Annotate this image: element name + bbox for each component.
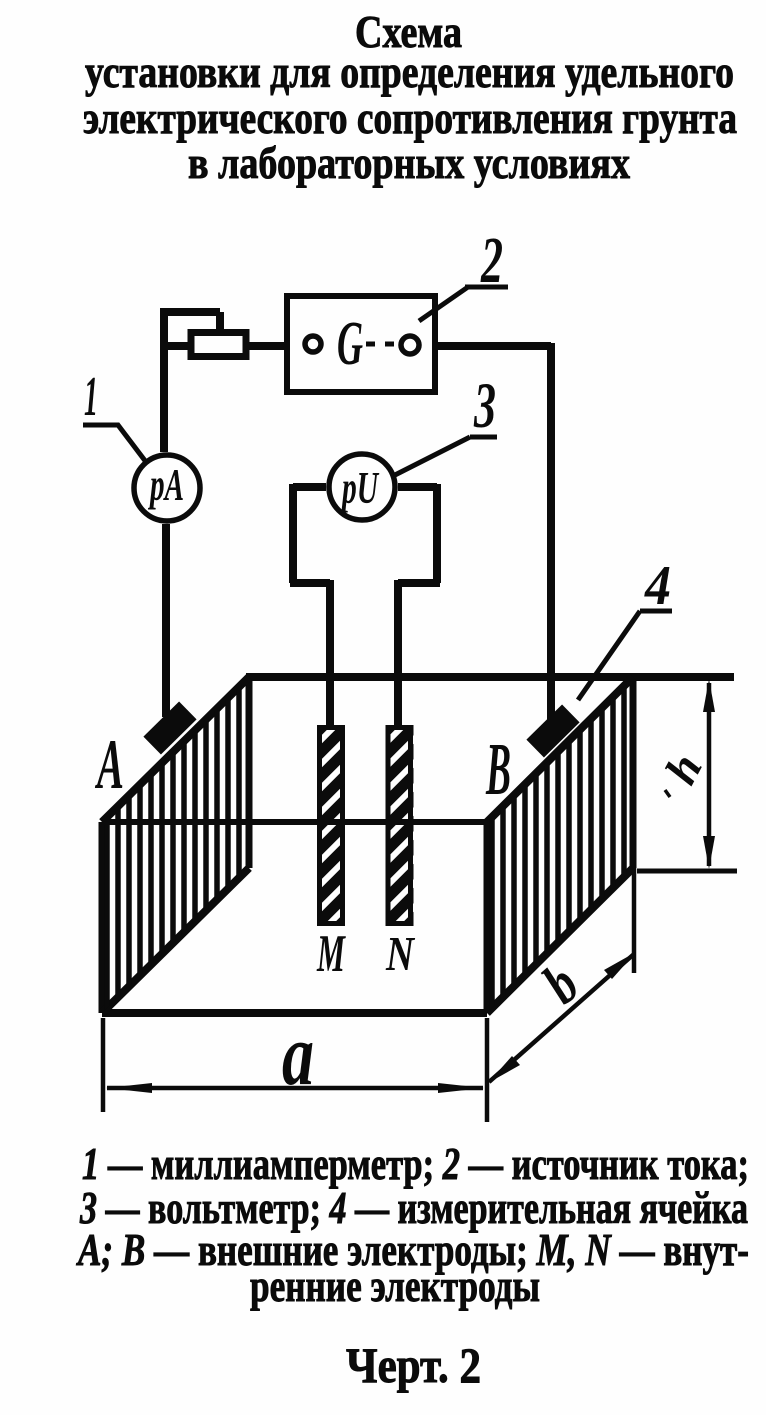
cell front bottom edge	[102, 1009, 487, 1017]
svg-text:pA: pA	[147, 459, 184, 510]
svg-text:M: M	[316, 925, 346, 983]
dimension h line	[707, 683, 712, 866]
electrode B wall	[487, 670, 633, 1015]
voltmeter pU	[329, 454, 395, 520]
caption legend	[76, 1138, 749, 1311]
resistor R	[191, 333, 246, 357]
dimension a line	[107, 1086, 483, 1091]
wire right vertical to electrode B	[547, 343, 555, 722]
wire left jog top	[164, 312, 220, 330]
terminal left of source	[305, 336, 321, 352]
svg-text:ренние электроды: ренние электроды	[250, 1260, 540, 1311]
svg-text:a: a	[282, 1007, 314, 1104]
cell back top edge	[246, 673, 734, 681]
dimension h bottom line	[637, 869, 737, 874]
svg-text:2: 2	[480, 224, 503, 297]
leader 2	[419, 287, 508, 321]
svg-text:установки для определения удел: установки для определения удельного	[85, 46, 734, 97]
leader 1	[83, 425, 146, 462]
probe N	[368, 660, 433, 989]
leader 3	[391, 437, 497, 477]
svg-text:в лабораторных условиях: в лабораторных условиях	[188, 137, 630, 188]
svg-text:электрического сопротивления г: электрического сопротивления грунта	[83, 92, 737, 143]
dimension b arrows	[604, 952, 636, 979]
svg-text:h: h	[655, 745, 712, 792]
svg-text:B: B	[485, 729, 511, 811]
wire ammeter to electrode A	[162, 524, 170, 717]
svg-text:b: b	[530, 951, 591, 1016]
wire resistor to source	[249, 342, 303, 350]
stray scan tick near h	[665, 790, 670, 797]
svg-text:N: N	[385, 926, 415, 981]
terminal on A	[143, 702, 196, 755]
wire probe N drop	[394, 580, 402, 728]
electrode A wall	[102, 670, 249, 1015]
dimension a arrows	[106, 1083, 152, 1093]
wire stub to resistor	[161, 342, 188, 350]
cell front top edge	[102, 819, 487, 825]
dashes	[366, 342, 394, 347]
wire source to right corner	[421, 342, 551, 350]
cell front top edge over probes	[102, 819, 487, 825]
svg-text:Черт. 2: Черт. 2	[346, 1337, 481, 1393]
leader 4	[578, 611, 672, 700]
svg-text:3: 3	[473, 370, 496, 442]
milliammeter pA	[134, 455, 200, 521]
svg-text:4: 4	[644, 555, 671, 617]
wire voltmeter left loop	[290, 484, 330, 583]
title text	[83, 6, 737, 188]
svg-text:1: 1	[84, 366, 98, 428]
wire ammeter vertical upper	[160, 308, 168, 452]
dimension h arrows	[703, 679, 715, 712]
source box 2	[287, 296, 435, 392]
terminal right of source	[401, 336, 419, 354]
svg-text:G: G	[337, 310, 363, 378]
wire probe M drop	[326, 580, 334, 728]
dimension a extension lines	[103, 1018, 487, 1122]
cell vertical edges	[102, 677, 633, 1013]
dimension b line	[489, 954, 634, 1082]
extension line from back corner	[632, 868, 637, 973]
probe M	[300, 660, 365, 989]
terminal on B	[526, 705, 579, 758]
svg-text:A: A	[95, 726, 124, 804]
wire voltmeter right loop	[398, 484, 440, 583]
svg-text:pU: pU	[339, 463, 379, 513]
